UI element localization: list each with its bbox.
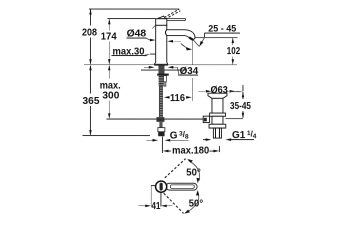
hose end reference line (365) xyxy=(82,135,150,137)
drain outlet tube G1 1/4 xyxy=(213,128,221,138)
dim max.30 underline xyxy=(111,55,144,57)
dim Ø34 left arrow xyxy=(144,66,154,69)
dim Ø48 underline xyxy=(126,37,146,39)
svg-text:Ø63: Ø63 xyxy=(210,85,228,96)
svg-text:50°: 50° xyxy=(186,167,201,178)
outlet leader V left branch xyxy=(193,40,199,47)
dim 116 line xyxy=(164,96,192,99)
spout left end cap arc xyxy=(165,30,166,35)
dim 25-45 drop stub xyxy=(203,33,205,37)
top reference line (lever top, 208) xyxy=(89,8,179,10)
dim 365 vertical line xyxy=(89,65,91,136)
outlet leader V right branch with arrow xyxy=(199,38,204,47)
upper swing lever (dashed) xyxy=(165,159,186,178)
svg-text:174: 174 xyxy=(101,32,117,43)
dim 174 vertical line xyxy=(108,19,110,65)
pop-up linkage rod xyxy=(107,118,205,120)
drain side linkage box xyxy=(203,116,209,122)
lower swing arc with arrows xyxy=(184,190,199,214)
reference line (cap top, 174) xyxy=(107,18,155,20)
max.180 extension line (drain centre) xyxy=(218,146,220,152)
faucet spout xyxy=(165,30,195,40)
svg-text:116: 116 xyxy=(170,93,185,104)
dim max.180 arrows xyxy=(163,150,219,153)
drain body lower xyxy=(212,116,223,124)
outlet height dimension line xyxy=(193,37,238,39)
lever neck bump xyxy=(157,16,165,19)
svg-text:41: 41 xyxy=(151,201,160,212)
svg-text:50°: 50° xyxy=(189,198,204,209)
top view lever slot xyxy=(170,185,194,189)
dim G3/8 line with arrows xyxy=(146,139,188,142)
top view cartridge slot xyxy=(160,183,163,191)
dim max.300 vertical line xyxy=(108,65,110,119)
tick near cap left xyxy=(152,25,155,28)
drain body upper xyxy=(212,98,223,113)
35-45 top reference line xyxy=(227,91,243,93)
dim Ø48 left leader+arrow xyxy=(146,38,155,41)
drain nut xyxy=(209,124,226,128)
dim max.30 leader arrow xyxy=(145,54,156,56)
rod below junction xyxy=(159,122,162,128)
aerator xyxy=(189,37,193,39)
dim Ø34 underline xyxy=(178,74,198,76)
35-45 bottom reference line xyxy=(226,117,243,119)
linkage junction xyxy=(156,117,164,122)
svg-text:208: 208 xyxy=(82,28,97,39)
dim 25-45 underline xyxy=(205,32,240,34)
faucet base flange xyxy=(155,64,168,65)
pop-up waste drain: flange xyxy=(208,93,227,98)
dim 102 vertical line xyxy=(232,37,234,64)
dim Ø63 line right xyxy=(230,90,241,93)
svg-text:max.180: max.180 xyxy=(172,145,210,156)
dim Ø34 right arrow xyxy=(168,66,179,74)
faucet lever (closed, horizontal rod) xyxy=(164,19,186,21)
dim 41 arrows xyxy=(139,205,173,208)
upper swing arc with arrows xyxy=(187,159,199,183)
outlet extension line (upper) xyxy=(192,40,194,65)
dim 41 stub from circle xyxy=(151,185,155,187)
svg-text:102: 102 xyxy=(227,46,241,57)
deck top line xyxy=(84,64,237,66)
dim Ø48 right arrow xyxy=(167,40,181,43)
svg-text:Ø34: Ø34 xyxy=(180,66,199,77)
dim 35-45 vertical line xyxy=(242,92,244,119)
svg-text:365: 365 xyxy=(82,96,99,107)
svg-text:35-45: 35-45 xyxy=(230,101,251,112)
G3/8 hose end connector xyxy=(158,128,165,132)
dim Ø63 line left xyxy=(198,90,211,93)
drain collar xyxy=(210,113,226,116)
faucet cap xyxy=(156,19,167,26)
Ø63 left extension line xyxy=(211,88,213,94)
svg-text:300: 300 xyxy=(102,91,119,102)
dim G1 1/4 line with arrows xyxy=(203,138,254,141)
faucet lever (open, dashed outline) xyxy=(164,9,180,19)
deck bottom line xyxy=(141,69,187,71)
faucet body xyxy=(155,25,168,65)
supply rod (threaded) xyxy=(159,86,163,117)
top view lever xyxy=(166,183,197,190)
top view body circle xyxy=(156,181,167,192)
svg-text:Ø48: Ø48 xyxy=(127,28,147,39)
G3/8 nut xyxy=(158,132,164,137)
dim 41 extension line left xyxy=(150,186,152,207)
Ø63 extension line xyxy=(242,85,244,91)
dim 41 extension line centre xyxy=(160,193,162,207)
max.180 extension line (hose end) xyxy=(161,137,163,154)
outlet extension line (lower) xyxy=(192,78,194,101)
lower swing lever (dashed) xyxy=(164,193,184,213)
aerator stream arrow (curved) xyxy=(181,44,192,51)
dim 208 vertical line xyxy=(89,9,91,65)
drain side knob xyxy=(204,118,207,122)
threaded shank below deck xyxy=(157,65,169,86)
